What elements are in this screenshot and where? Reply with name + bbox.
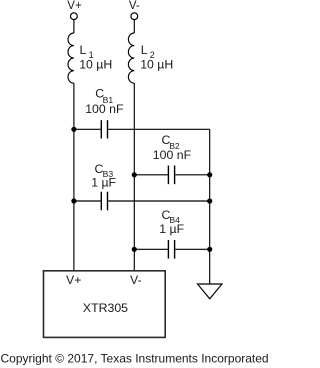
wire L2 to XTR305 V- pin xyxy=(133,83,135,271)
svg-text:100 nF: 100 nF xyxy=(153,148,192,162)
wire CB4 right plate to ground rail xyxy=(175,248,210,250)
svg-text:L: L xyxy=(80,43,87,57)
wire V+ terminal to L1 xyxy=(73,20,75,33)
wire V- rail to CB2 left plate xyxy=(134,174,168,176)
wire CB1 right plate to ground rail xyxy=(108,128,210,130)
wire V- terminal to L2 xyxy=(133,20,135,33)
ground rail wire xyxy=(209,129,211,284)
inductor L1 xyxy=(68,33,74,83)
svg-text:100 nF: 100 nF xyxy=(85,102,124,116)
wire CB2 right plate to ground rail xyxy=(175,174,210,176)
svg-text:Copyright © 2017, Texas Instru: Copyright © 2017, Texas Instruments Inco… xyxy=(1,352,269,366)
svg-text:V-: V- xyxy=(129,0,140,12)
svg-text:V+: V+ xyxy=(66,273,81,287)
svg-text:1 µF: 1 µF xyxy=(159,222,184,236)
svg-text:XTR305: XTR305 xyxy=(83,301,128,315)
wire V- rail to CB4 left plate xyxy=(134,248,168,250)
terminal V+ xyxy=(71,13,78,20)
junction dot CB3 right on ground rail xyxy=(207,198,212,203)
capacitor CB2 xyxy=(168,166,174,185)
junction dot CB1 left on V+ rail xyxy=(71,127,76,132)
terminal V- xyxy=(131,13,138,20)
svg-text:V+: V+ xyxy=(67,0,82,12)
capacitor CB1 xyxy=(101,120,107,138)
capacitor CB3 xyxy=(101,192,107,211)
junction dot CB2 right on ground rail xyxy=(207,172,212,177)
junction dot CB4 left on V- rail xyxy=(132,247,137,252)
svg-text:10 µH: 10 µH xyxy=(140,57,173,71)
wire V+ rail to CB1 left plate xyxy=(74,128,101,130)
svg-text:10 µH: 10 µH xyxy=(79,57,112,71)
svg-text:V-: V- xyxy=(130,273,142,287)
wire CB3 right plate to ground rail xyxy=(108,200,210,202)
ground xyxy=(198,284,223,299)
junction dot CB2 left on V- rail xyxy=(132,172,137,177)
junction dot CB4 right on ground rail xyxy=(207,247,212,252)
svg-text:L: L xyxy=(141,43,148,57)
op-amp box XTR305 xyxy=(44,271,166,338)
inductor L2 xyxy=(128,33,134,83)
wire V+ rail to CB3 left plate xyxy=(74,200,101,202)
junction dot CB3 left on V+ rail xyxy=(71,198,76,203)
wire L1 to XTR305 V+ pin xyxy=(73,83,75,271)
capacitor CB4 xyxy=(168,240,174,259)
svg-text:1 µF: 1 µF xyxy=(91,176,116,190)
